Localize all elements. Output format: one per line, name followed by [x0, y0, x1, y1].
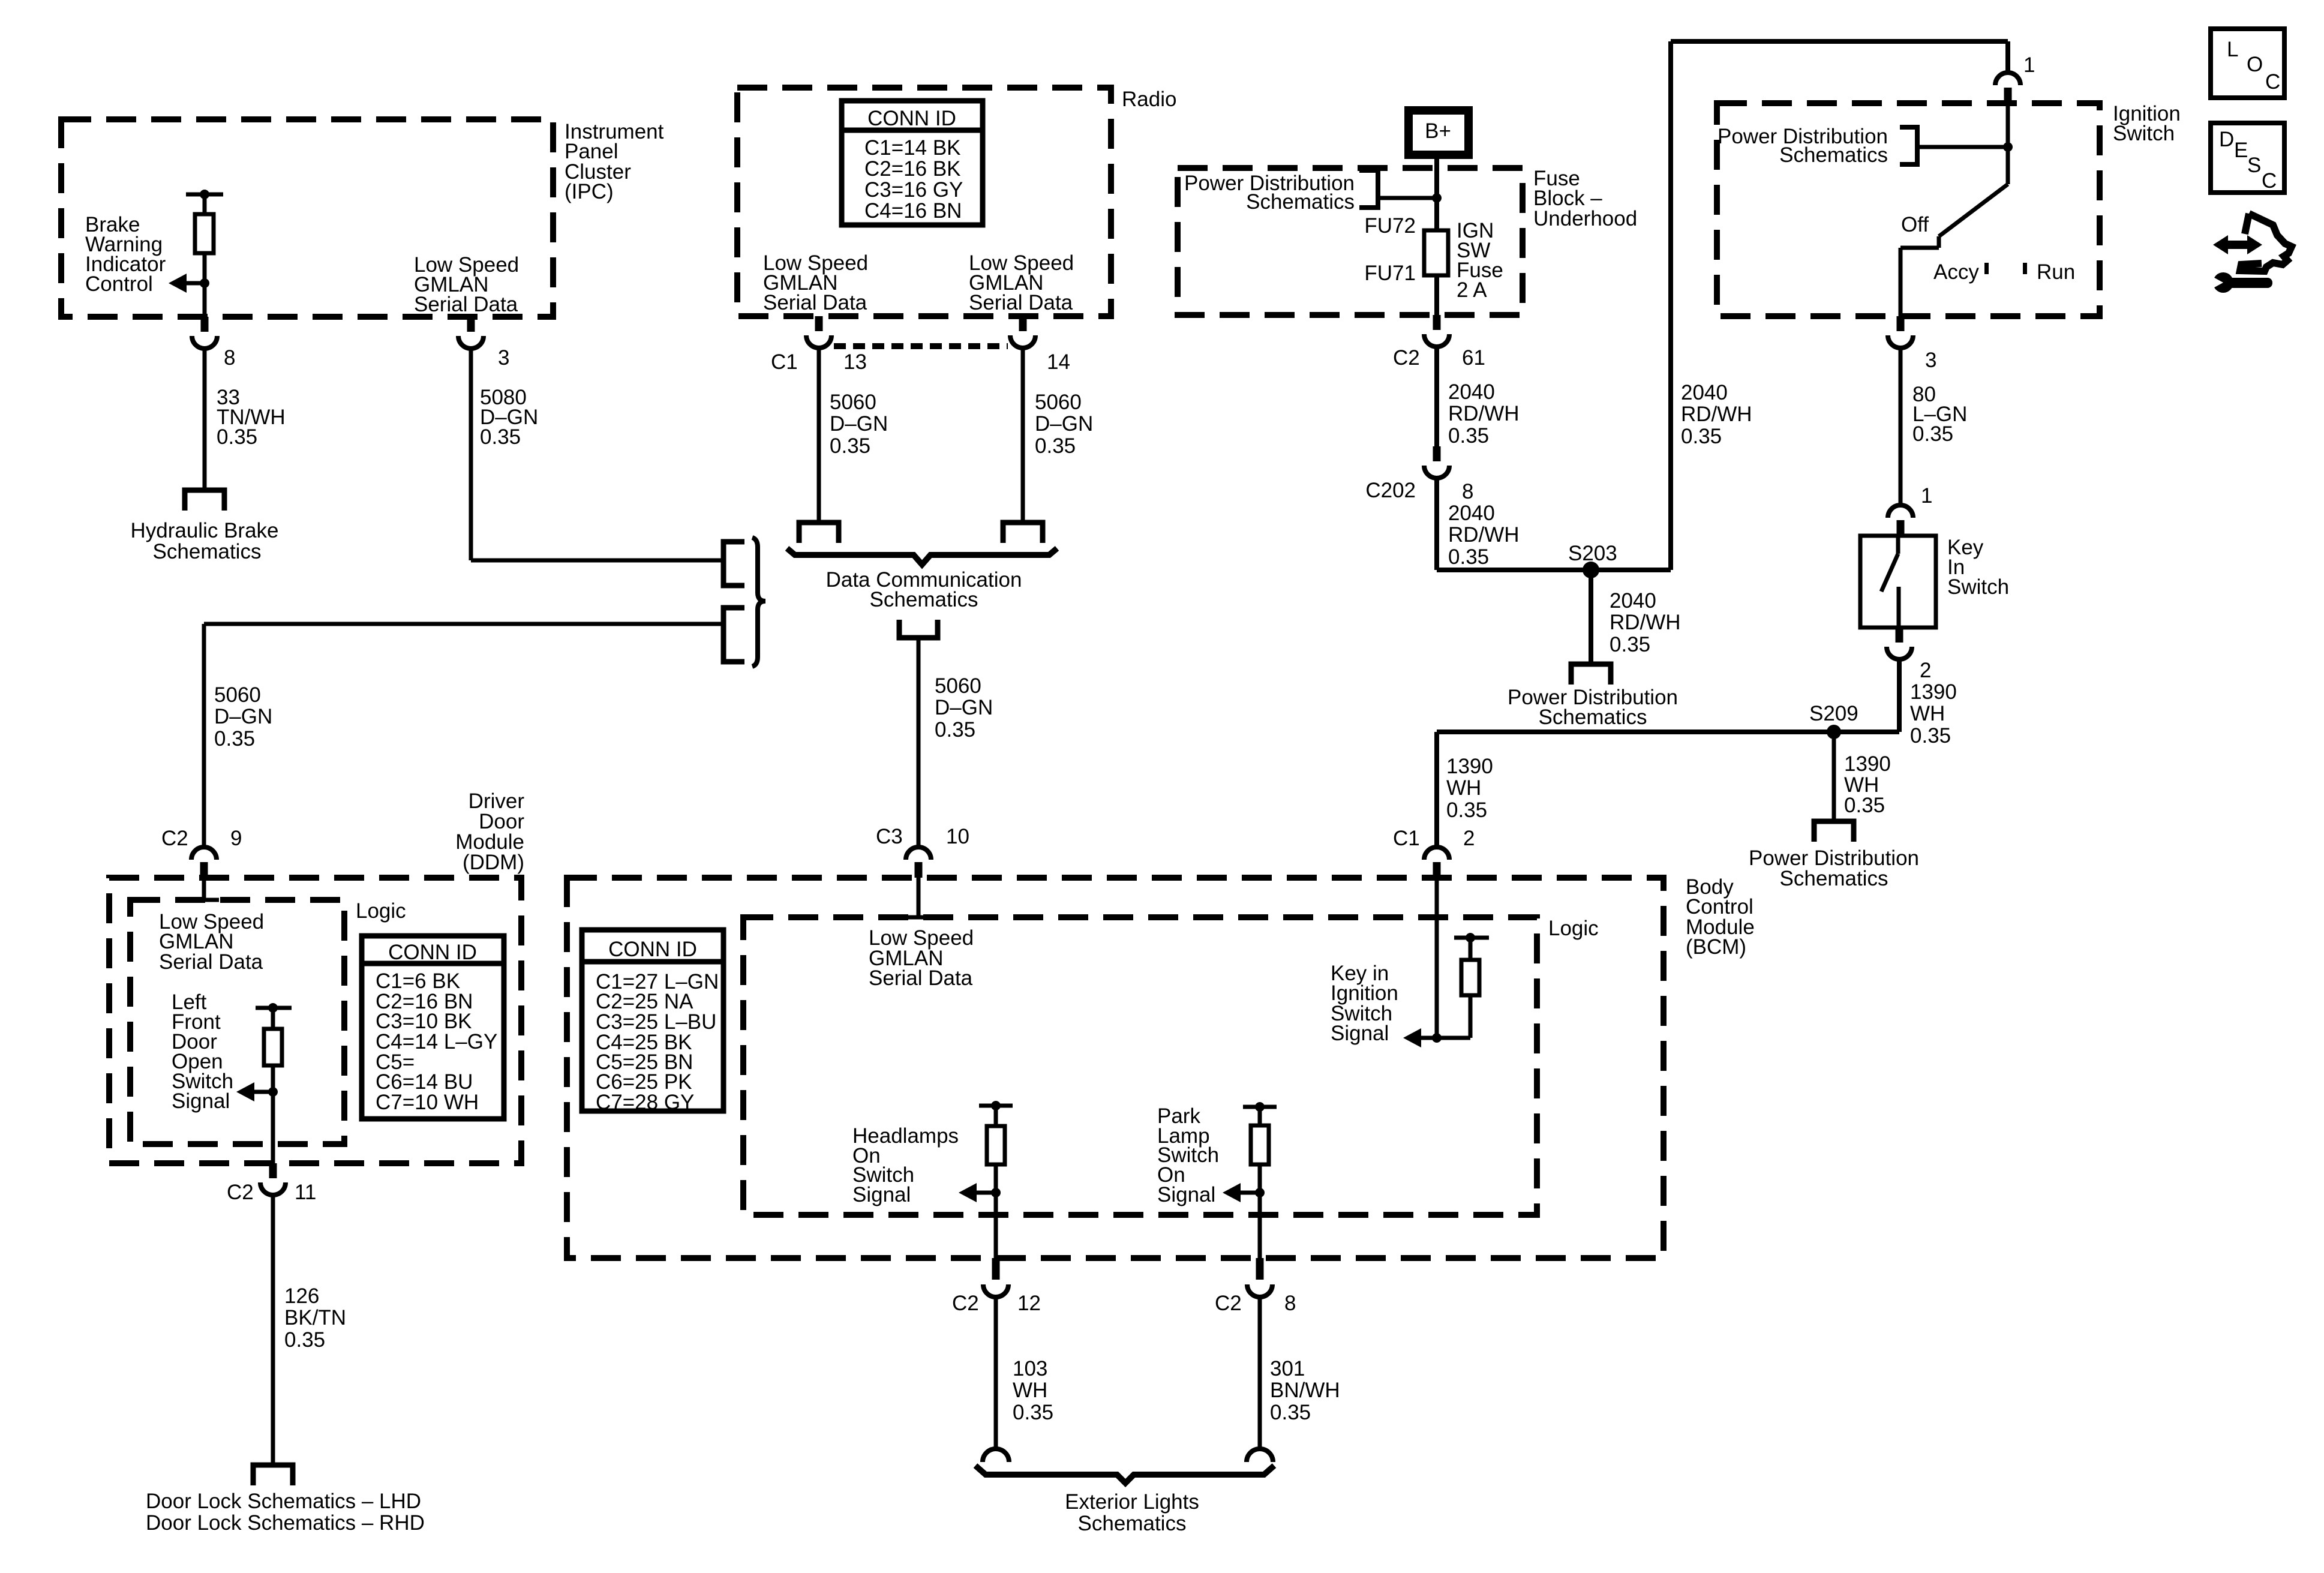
svg-text:Logic: Logic	[1548, 917, 1599, 940]
svg-text:0.35: 0.35	[1681, 425, 1722, 448]
svg-text:Door Lock Schematics – RHD: Door Lock Schematics – RHD	[146, 1511, 425, 1535]
svg-text:8: 8	[224, 346, 235, 370]
svg-text:Control: Control	[85, 272, 153, 296]
svg-text:0.35: 0.35	[1844, 794, 1885, 817]
svg-text:Schematics: Schematics	[1539, 706, 1647, 729]
svg-text:C1=14 BK: C1=14 BK	[864, 136, 961, 160]
svg-text:C2: C2	[1215, 1292, 1242, 1315]
svg-text:14: 14	[1047, 350, 1070, 374]
svg-text:RD/WH: RD/WH	[1681, 403, 1752, 426]
svg-text:0.35: 0.35	[1610, 633, 1650, 656]
svg-text:C3: C3	[876, 825, 903, 848]
svg-text:2: 2	[1463, 827, 1475, 850]
svg-text:RD/WH: RD/WH	[1448, 402, 1520, 425]
svg-text:3: 3	[1925, 349, 1936, 372]
svg-text:FU72: FU72	[1364, 214, 1416, 238]
svg-text:RD/WH: RD/WH	[1610, 611, 1681, 634]
svg-text:BK/TN: BK/TN	[284, 1306, 346, 1329]
svg-text:13: 13	[843, 350, 867, 374]
svg-text:12: 12	[1017, 1292, 1041, 1315]
svg-text:Schematics: Schematics	[1078, 1512, 1187, 1535]
svg-text:C2: C2	[1393, 346, 1420, 370]
svg-text:C1: C1	[771, 350, 798, 374]
svg-text:D–GN: D–GN	[935, 696, 993, 719]
svg-text:0.35: 0.35	[1270, 1401, 1311, 1424]
svg-text:0.35: 0.35	[830, 434, 870, 458]
svg-text:0.35: 0.35	[284, 1328, 325, 1352]
svg-text:Signal: Signal	[852, 1183, 911, 1206]
svg-text:S: S	[2247, 154, 2261, 177]
svg-text:B+: B+	[1425, 119, 1451, 143]
svg-text:126: 126	[284, 1284, 319, 1308]
svg-text:0.35: 0.35	[1013, 1401, 1053, 1424]
svg-text:10: 10	[946, 825, 969, 848]
svg-text:D–GN: D–GN	[214, 705, 272, 728]
svg-text:C2=16 BK: C2=16 BK	[864, 157, 961, 181]
svg-text:301: 301	[1270, 1357, 1305, 1380]
svg-text:D–GN: D–GN	[830, 412, 888, 436]
svg-text:C2: C2	[227, 1181, 254, 1204]
svg-text:Serial Data: Serial Data	[159, 950, 263, 974]
svg-text:Serial Data: Serial Data	[763, 291, 867, 314]
svg-text:1390: 1390	[1910, 680, 1957, 704]
svg-text:WH: WH	[1013, 1379, 1047, 1402]
svg-text:Underhood: Underhood	[1533, 207, 1637, 230]
svg-text:1: 1	[2023, 53, 2035, 77]
svg-text:Serial Data: Serial Data	[969, 291, 1073, 314]
svg-text:Switch: Switch	[2113, 122, 2175, 145]
svg-text:Signal: Signal	[1157, 1183, 1215, 1206]
svg-text:9: 9	[230, 827, 242, 850]
svg-text:Signal: Signal	[172, 1089, 230, 1113]
svg-text:(DDM): (DDM)	[463, 851, 524, 874]
svg-text:8: 8	[1284, 1292, 1296, 1315]
svg-text:0.35: 0.35	[214, 727, 255, 751]
svg-text:0.35: 0.35	[935, 718, 975, 742]
svg-text:Schematics: Schematics	[1246, 190, 1355, 214]
svg-text:CONN ID: CONN ID	[867, 107, 956, 130]
svg-text:S203: S203	[1568, 542, 1617, 565]
svg-text:Run: Run	[2037, 260, 2075, 284]
svg-text:Door Lock Schematics – LHD: Door Lock Schematics – LHD	[146, 1490, 421, 1513]
svg-text:5060: 5060	[830, 391, 876, 414]
svg-text:8: 8	[1462, 480, 1473, 503]
svg-text:RD/WH: RD/WH	[1448, 523, 1520, 547]
svg-text:C202: C202	[1365, 479, 1416, 502]
svg-text:1390: 1390	[1446, 755, 1493, 778]
svg-text:(IPC): (IPC)	[565, 180, 614, 203]
svg-text:S209: S209	[1809, 702, 1858, 725]
svg-text:Exterior Lights: Exterior Lights	[1065, 1490, 1199, 1514]
svg-text:3: 3	[498, 346, 509, 370]
svg-text:0.35: 0.35	[1035, 434, 1076, 458]
svg-text:2 A: 2 A	[1457, 278, 1487, 302]
svg-text:WH: WH	[1910, 702, 1945, 725]
svg-text:11: 11	[295, 1181, 316, 1204]
svg-text:5060: 5060	[935, 674, 981, 698]
svg-text:CONN ID: CONN ID	[608, 938, 697, 961]
svg-text:Radio: Radio	[1122, 88, 1176, 111]
svg-text:Accy: Accy	[1933, 260, 1979, 284]
svg-text:Serial Data: Serial Data	[414, 293, 518, 316]
svg-text:C7=10 WH: C7=10 WH	[376, 1091, 479, 1114]
svg-text:C1: C1	[1393, 827, 1420, 850]
svg-text:1390: 1390	[1844, 752, 1891, 776]
svg-text:D: D	[2219, 128, 2234, 151]
svg-text:C: C	[2265, 70, 2280, 94]
svg-text:0.35: 0.35	[217, 425, 257, 449]
svg-text:WH: WH	[1446, 776, 1481, 800]
svg-text:Schematics: Schematics	[1779, 143, 1888, 167]
svg-text:0.35: 0.35	[1912, 422, 1953, 446]
svg-text:Hydraulic Brake: Hydraulic Brake	[130, 519, 278, 542]
svg-text:C7=28 GY: C7=28 GY	[596, 1091, 694, 1114]
svg-text:0.35: 0.35	[1448, 545, 1489, 569]
svg-text:Signal: Signal	[1331, 1022, 1389, 1045]
svg-text:2040: 2040	[1448, 502, 1495, 525]
svg-text:(BCM): (BCM)	[1686, 935, 1746, 959]
svg-text:0.35: 0.35	[1448, 424, 1489, 448]
svg-text:C3=16 GY: C3=16 GY	[864, 178, 963, 202]
svg-text:O: O	[2247, 53, 2263, 76]
svg-text:5060: 5060	[214, 683, 261, 707]
svg-text:D–GN: D–GN	[1035, 412, 1093, 436]
svg-text:1: 1	[1921, 484, 1932, 508]
svg-text:2040: 2040	[1681, 381, 1728, 404]
svg-text:Logic: Logic	[356, 899, 406, 923]
svg-text:2040: 2040	[1448, 380, 1495, 404]
svg-text:C2: C2	[952, 1292, 979, 1315]
svg-text:Switch: Switch	[1947, 575, 2009, 599]
svg-text:Schematics: Schematics	[1780, 867, 1888, 890]
svg-text:103: 103	[1013, 1357, 1047, 1380]
svg-text:0.35: 0.35	[1446, 798, 1487, 822]
svg-text:Serial Data: Serial Data	[869, 966, 973, 990]
svg-text:61: 61	[1462, 346, 1485, 370]
svg-text:Schematics: Schematics	[870, 588, 978, 611]
svg-text:0.35: 0.35	[1910, 724, 1951, 748]
svg-text:Schematics: Schematics	[153, 540, 262, 563]
svg-text:C4=16 BN: C4=16 BN	[864, 199, 962, 223]
svg-text:BN/WH: BN/WH	[1270, 1379, 1340, 1402]
svg-text:2040: 2040	[1610, 589, 1656, 613]
svg-text:L: L	[2227, 38, 2238, 61]
svg-text:2: 2	[1920, 659, 1931, 682]
svg-text:C: C	[2262, 169, 2277, 193]
svg-text:0.35: 0.35	[480, 425, 521, 449]
svg-text:C2: C2	[161, 827, 188, 850]
svg-text:CONN ID: CONN ID	[388, 941, 477, 964]
svg-text:5060: 5060	[1035, 391, 1082, 414]
svg-text:FU71: FU71	[1364, 262, 1416, 285]
svg-text:E: E	[2234, 139, 2248, 162]
svg-text:Off: Off	[1901, 213, 1929, 236]
